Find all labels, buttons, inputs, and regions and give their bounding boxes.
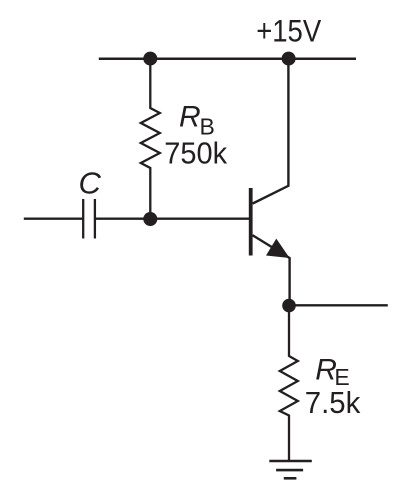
wire +15V supply rail	[99, 58, 356, 61]
wire input lead to capacitor	[24, 218, 83, 220]
label 7.5k	[305, 385, 361, 420]
wire capacitor to base node	[95, 218, 150, 220]
transistor Q1 base bar	[249, 188, 253, 256]
node emitter junction dot	[282, 299, 296, 313]
ground	[269, 461, 312, 478]
wire output lead from emitter node	[289, 304, 388, 306]
label +15V	[256, 13, 321, 49]
node base junction dot	[143, 212, 157, 226]
resistor RE (zigzag with leads)	[280, 306, 298, 461]
label RB	[179, 101, 215, 140]
svg-text:7.5k: 7.5k	[305, 385, 361, 420]
label 750k	[164, 136, 227, 171]
capacitor C plates	[83, 199, 95, 239]
node junction dot at RB top on rail	[143, 52, 157, 66]
transistor Q1 collector lead	[253, 58, 289, 204]
svg-text:R: R	[179, 101, 201, 134]
wire base node to transistor base	[150, 218, 249, 220]
svg-text:C: C	[79, 165, 102, 200]
svg-text:+15V: +15V	[256, 13, 321, 49]
label C	[79, 165, 102, 200]
resistor RB (zigzag with leads)	[141, 58, 160, 219]
svg-text:750k: 750k	[164, 136, 227, 171]
transistor Q1 emitter lead	[253, 235, 290, 306]
node junction dot at collector on rail	[282, 52, 296, 66]
label RE	[315, 354, 349, 391]
transistor Q1 emitter arrow	[266, 239, 290, 258]
